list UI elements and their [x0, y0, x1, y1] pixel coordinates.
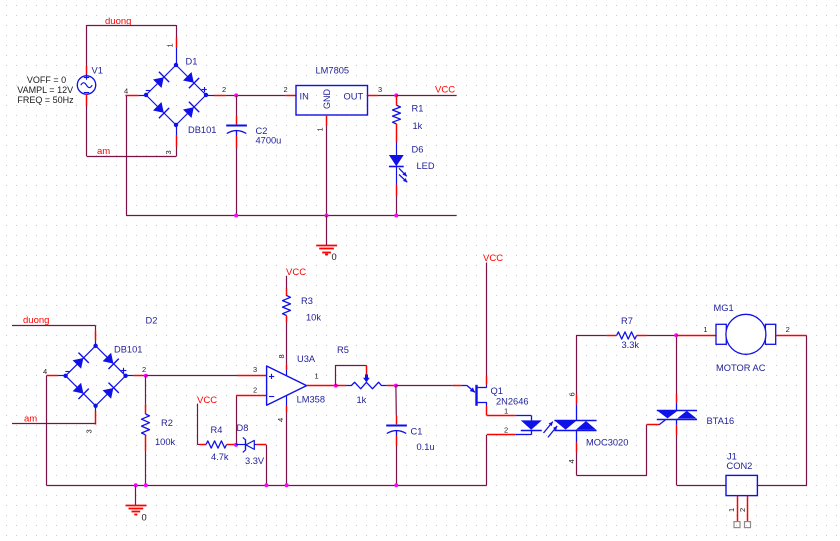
- op-amp pin 1 stub: [307, 385, 336, 387]
- svg-text:4: 4: [276, 418, 285, 422]
- op-amp U3A LM358: [267, 366, 307, 405]
- wire D1 pin2 to LM7805 IN: [226, 95, 286, 97]
- svg-text:2: 2: [738, 508, 747, 512]
- svg-text:am: am: [24, 413, 37, 424]
- junction C1 bottom: [394, 483, 398, 487]
- D1 pin 3 lead: [176, 125, 178, 135]
- wire Q1 B1 down to MOC pin1: [486, 402, 488, 406]
- wire OUT to R1/VCC: [378, 95, 396, 97]
- BTA16 MT2 lead up: [676, 403, 678, 411]
- svg-text:DB101: DB101: [188, 125, 216, 135]
- svg-text:2: 2: [253, 386, 257, 395]
- svg-text:3: 3: [253, 365, 257, 374]
- regulator U LM7805: [296, 86, 368, 116]
- LM7805 pin 2 stub: [286, 95, 296, 97]
- svg-text:R4: R4: [211, 425, 223, 435]
- svg-text:0: 0: [332, 252, 337, 262]
- op-amp pin 4 lead to rail: [286, 395, 288, 406]
- resistor R2: [142, 414, 150, 435]
- svg-text:Q1: Q1: [491, 386, 503, 396]
- motor MG1 pin 1 stub: [676, 335, 716, 337]
- junction R5 right / C1: [394, 384, 398, 388]
- wire VCC to R3: [286, 276, 288, 289]
- ground 0 (bottom): [135, 485, 137, 505]
- svg-text:LED: LED: [417, 161, 435, 171]
- junction op-amp pin4 bottom: [285, 483, 289, 487]
- opto-coupler U MOC3020 input LED: [516, 415, 532, 417]
- svg-text:MOC3020: MOC3020: [586, 438, 628, 448]
- svg-text:VCC: VCC: [435, 85, 455, 96]
- capacitor C1: [386, 425, 407, 427]
- bridge rectifier D2 DB101: [66, 346, 126, 406]
- wire BTA16 MT1 to J1: [677, 485, 726, 487]
- svg-text:VOFF = 0: VOFF = 0: [27, 75, 66, 85]
- MOC3020 pin 6 lead up: [576, 404, 578, 420]
- D6 cathode lead to rail: [396, 185, 398, 196]
- resistor R1: [396, 95, 398, 105]
- svg-text:1k: 1k: [357, 395, 367, 405]
- zener D8: [236, 444, 246, 446]
- junction R7 / BTA16 / motor: [674, 333, 678, 337]
- svg-text:2: 2: [222, 85, 226, 94]
- wire motor pin2 down to J1: [758, 336, 807, 486]
- wire V1 top vertical: [86, 25, 88, 66]
- MOC3020 pin 1 lead: [487, 415, 516, 417]
- capacitor C2: [226, 125, 247, 127]
- capacitor C1 leads: [395, 386, 397, 416]
- V1 pin + stub: [86, 66, 88, 76]
- bottom ground rail: [46, 485, 486, 487]
- svg-text:1: 1: [316, 127, 325, 131]
- resistor R4: [200, 444, 207, 446]
- svg-text:IN: IN: [300, 92, 309, 102]
- svg-text:C1: C1: [411, 427, 423, 437]
- svg-text:R1: R1: [412, 104, 424, 114]
- svg-text:D2: D2: [146, 316, 158, 326]
- svg-text:LM358: LM358: [297, 395, 325, 405]
- motor MG1 MOTOR AC: [716, 324, 726, 344]
- svg-text:VAMPL = 12V: VAMPL = 12V: [17, 85, 73, 95]
- resistor R2 leads: [145, 376, 147, 405]
- wire R7 from MOC pin6 riser: [576, 335, 607, 337]
- MOC3020 pin 2 lead: [487, 434, 516, 436]
- svg-text:VCC: VCC: [197, 395, 217, 406]
- wire D2+ to op-amp pin3: [146, 375, 237, 377]
- wire duong bottom to D2 pin1: [12, 325, 96, 327]
- junction D2 pin2: [144, 374, 148, 378]
- LM7805 pin 1 GND lead: [326, 115, 328, 126]
- D2 pin 4 lead: [58, 375, 66, 377]
- svg-text:1: 1: [504, 407, 508, 416]
- R5 wiper arrow: [365, 374, 368, 378]
- svg-text:1: 1: [315, 372, 319, 381]
- svg-text:V1: V1: [92, 66, 103, 76]
- svg-text:C2: C2: [256, 126, 268, 136]
- svg-text:2N2646: 2N2646: [496, 397, 529, 407]
- svg-text:2: 2: [786, 325, 790, 334]
- svg-text:R3: R3: [301, 296, 313, 306]
- svg-text:DB101: DB101: [114, 345, 142, 355]
- wire to VCC label: [396, 95, 456, 97]
- svg-text:CON2: CON2: [727, 461, 753, 471]
- resistor R3: [283, 296, 291, 316]
- junction GND pin at rail: [325, 214, 329, 218]
- svg-text:U3A: U3A: [297, 354, 316, 364]
- svg-text:FREQ = 50Hz: FREQ = 50Hz: [17, 95, 74, 105]
- top ground rail: [126, 215, 457, 217]
- svg-text:LM7805: LM7805: [316, 66, 350, 76]
- svg-text:3: 3: [85, 429, 94, 433]
- svg-text:3: 3: [164, 150, 173, 154]
- capacitor C2 leads: [236, 95, 238, 116]
- svg-text:3.3k: 3.3k: [622, 340, 640, 350]
- svg-text:MOTOR AC: MOTOR AC: [716, 363, 766, 373]
- svg-text:1k: 1k: [413, 121, 423, 131]
- resistor R7: [607, 335, 617, 337]
- svg-text:100k: 100k: [155, 437, 176, 447]
- junction op-amp pin1 / R5: [334, 384, 338, 388]
- BTA16 MT1 lead down: [676, 419, 678, 425]
- svg-text:D6: D6: [412, 145, 424, 155]
- svg-text:1: 1: [703, 325, 707, 334]
- svg-text:2: 2: [284, 85, 288, 94]
- svg-text:R5: R5: [337, 345, 349, 355]
- LM7805 pin 3 stub: [368, 95, 379, 97]
- svg-text:4: 4: [124, 87, 128, 96]
- svg-text:VCC: VCC: [286, 267, 306, 278]
- D8 anode lead to rail: [257, 444, 267, 446]
- junction D6 at rail: [394, 214, 398, 218]
- svg-text:10k: 10k: [306, 313, 321, 323]
- wire MOC pin4 to BTA16 gate: [577, 425, 647, 476]
- junction at C2 top: [234, 93, 238, 97]
- svg-text:8: 8: [277, 354, 286, 358]
- svg-text:D1: D1: [186, 57, 198, 67]
- wire am top: V1- down and right to D1 pin3: [86, 105, 88, 156]
- wire bottom rail riser to MOC pin2: [486, 435, 488, 485]
- junction C2 bottom: [234, 214, 238, 218]
- D2 pin 3 lead: [95, 406, 97, 411]
- svg-text:2: 2: [504, 426, 508, 435]
- svg-text:am: am: [97, 146, 110, 157]
- wire duong top: V1+ to D1 pin1: [87, 25, 177, 27]
- wire am bottom: [12, 423, 96, 425]
- wire R5 wiper loop: [336, 366, 367, 386]
- junction R4/D8/pin2 node: [234, 443, 238, 447]
- bridge rectifier D1 DB101: [146, 65, 206, 125]
- svg-text:3: 3: [378, 85, 382, 94]
- svg-text:J1: J1: [727, 452, 737, 462]
- junction R2 bottom: [144, 483, 148, 487]
- svg-text:D8: D8: [237, 423, 249, 433]
- svg-text:0.1u: 0.1u: [417, 442, 435, 452]
- svg-text:BTA16: BTA16: [707, 416, 735, 426]
- op-amp pin 8 stub: [286, 365, 288, 370]
- D1 pin 4 lead: [139, 95, 146, 97]
- wire D2 pin4 down to bottom rail: [46, 376, 48, 485]
- D1 pin 1 lead: [176, 25, 178, 38]
- source V1: [77, 76, 95, 94]
- motor MG1 pin 2 stub: [776, 335, 807, 337]
- D2 pin 2 lead: [126, 375, 134, 377]
- V1 pin - stub: [86, 94, 88, 105]
- D1 pin 2 lead: [206, 95, 214, 97]
- transistor Q1 2N2646: [462, 385, 467, 387]
- op-amp pin 3 stub: [237, 375, 267, 377]
- svg-text:R7: R7: [621, 316, 633, 326]
- svg-text:3.3V: 3.3V: [245, 456, 265, 466]
- op-amp pin 2 stub: [257, 395, 267, 397]
- junction at R1 top: [394, 93, 398, 97]
- wire D1 pin4 to bottom rail (vertical crossover): [126, 95, 128, 215]
- svg-text:4: 4: [43, 367, 47, 376]
- junction ground stub: [134, 483, 138, 487]
- ground 0 (top): [326, 216, 328, 246]
- svg-text:4.7k: 4.7k: [211, 452, 229, 462]
- svg-text:GND: GND: [322, 89, 332, 110]
- junction D8 bottom: [264, 483, 268, 487]
- svg-text:1: 1: [166, 43, 175, 47]
- svg-text:4700u: 4700u: [256, 136, 282, 146]
- svg-text:R2: R2: [161, 418, 173, 428]
- wire R5 to Q1 emitter: [396, 385, 453, 387]
- triac BTA16: [659, 419, 666, 425]
- svg-text:VCC: VCC: [483, 253, 503, 264]
- J1 pin 1: [737, 496, 739, 522]
- transistor Q1 2N2646 emitter stub: [453, 385, 462, 387]
- potentiometer R5: [336, 385, 346, 387]
- D2 pin 1 lead: [95, 331, 97, 341]
- J1 pin 2: [747, 496, 749, 522]
- svg-text:4: 4: [567, 459, 576, 463]
- svg-text:duong: duong: [23, 315, 49, 326]
- MOC3020 emission arrows: [544, 422, 553, 433]
- svg-text:0: 0: [142, 513, 147, 523]
- svg-text:2: 2: [142, 365, 146, 374]
- wire node to op-amp pin2: [236, 396, 238, 445]
- svg-text:6: 6: [568, 392, 577, 396]
- MOC3020 pin 4 lead down: [576, 430, 578, 442]
- svg-text:OUT: OUT: [344, 92, 364, 102]
- wire VCC down to R4: [197, 404, 199, 445]
- MOC3020 photo-triac: [554, 420, 596, 422]
- svg-text:MG1: MG1: [714, 303, 734, 313]
- LED D6: [396, 143, 398, 156]
- svg-text:1: 1: [727, 508, 736, 512]
- connector J1 CON2: [726, 475, 757, 495]
